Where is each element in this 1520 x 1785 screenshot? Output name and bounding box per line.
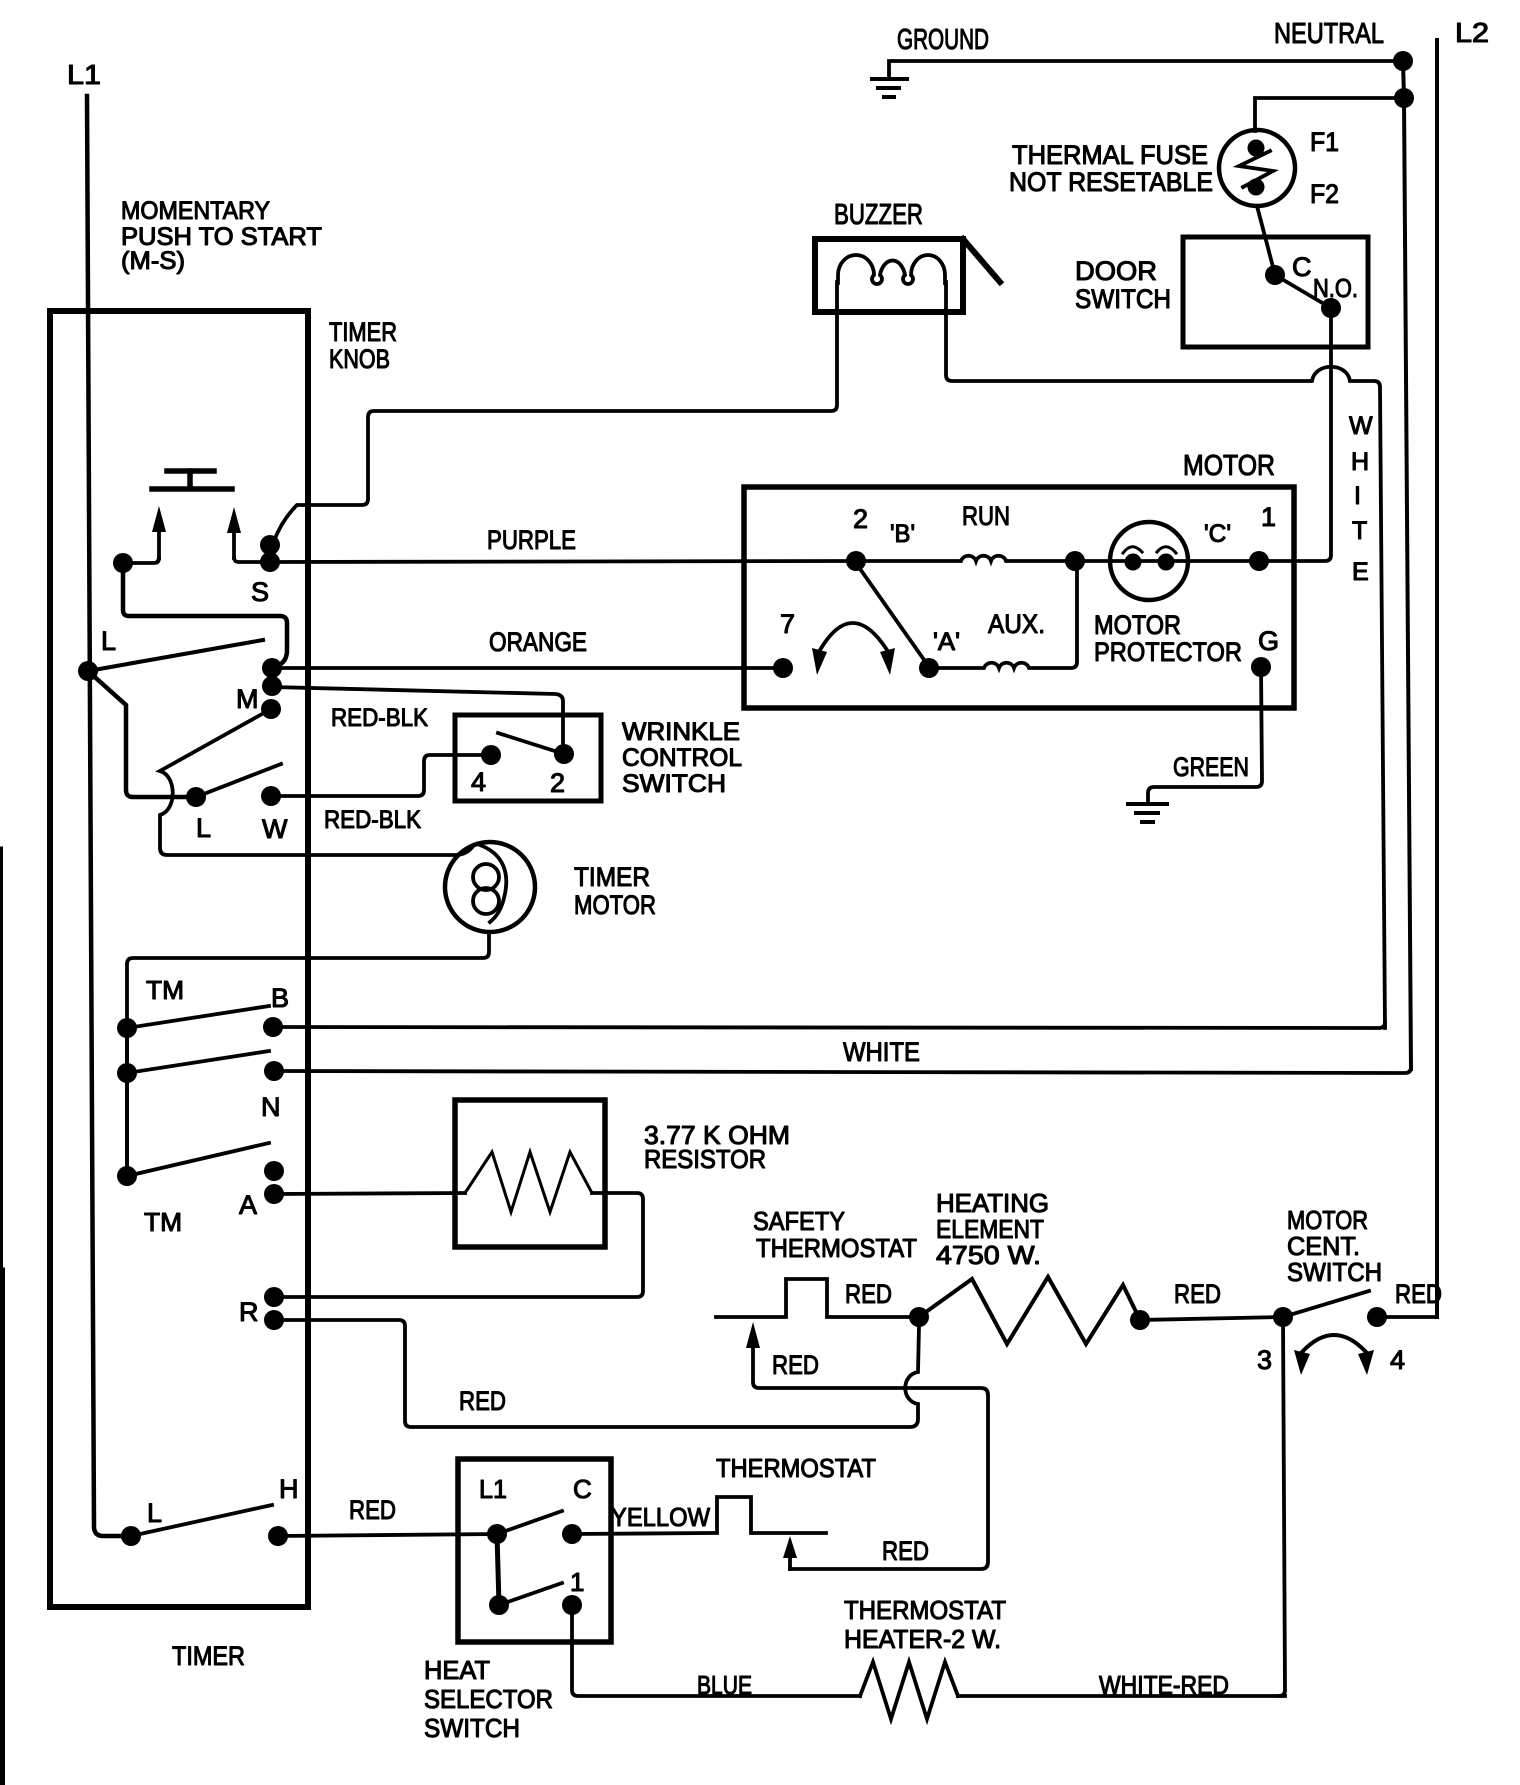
svg-text:RED: RED bbox=[1174, 1279, 1221, 1309]
svg-text:TM: TM bbox=[146, 975, 184, 1005]
wire BLUE from selector 1 to heater bbox=[572, 1605, 860, 1696]
svg-text:MOTOR: MOTOR bbox=[1183, 450, 1275, 482]
thermal fuse element zigzag bbox=[1239, 151, 1273, 187]
wrinkle switch contact 4 dot bbox=[481, 745, 501, 765]
svg-text:SWITCH: SWITCH bbox=[1287, 1257, 1382, 1287]
node heating element right dot bbox=[1130, 1310, 1150, 1330]
svg-text:2: 2 bbox=[853, 504, 868, 534]
svg-text:THERMOSTAT: THERMOSTAT bbox=[756, 1233, 917, 1263]
motor cent switch contact 4 dot bbox=[1367, 1307, 1387, 1327]
wire thermal fuse to door switch common bbox=[1257, 206, 1273, 267]
wire N to neutral riser bbox=[274, 1067, 1411, 1073]
wire resistor loop back to R contact bbox=[274, 1193, 643, 1297]
svg-text:WHITE-RED: WHITE-RED bbox=[1099, 1670, 1229, 1700]
wire RED contact 4 to L2 bbox=[1377, 1315, 1437, 1319]
wire GREEN from G to chassis ground bbox=[1148, 667, 1262, 802]
svg-text:PROTECTOR: PROTECTOR bbox=[1094, 637, 1242, 667]
thermal fuse terminal F2 dot bbox=[1248, 179, 1265, 196]
buzzer striker line bbox=[963, 239, 1000, 282]
cent switch action arc with arrows bbox=[1302, 1335, 1366, 1352]
centrifugal action arc with arrows bbox=[820, 623, 887, 650]
svg-text:HEAT: HEAT bbox=[424, 1655, 490, 1685]
contact S lower dot bbox=[260, 552, 280, 572]
label THERMAL FUSE NOT RESETABLE bbox=[1009, 140, 1213, 197]
svg-text:THERMOSTAT: THERMOSTAT bbox=[844, 1595, 1006, 1625]
svg-text:4: 4 bbox=[471, 767, 486, 797]
contact A lower dot bbox=[264, 1184, 284, 1204]
wire YELLOW with thermostat bump bbox=[572, 1497, 826, 1534]
label HEAT SELECTOR SWITCH bbox=[424, 1655, 553, 1743]
wire L1 vertical line bbox=[87, 96, 131, 1536]
svg-text:H: H bbox=[1351, 448, 1369, 476]
svg-text:SELECTOR: SELECTOR bbox=[424, 1684, 553, 1714]
svg-text:TIMER: TIMER bbox=[172, 1641, 245, 1671]
contact M lower dot bbox=[261, 699, 281, 719]
chassis ground symbol bbox=[1128, 804, 1167, 822]
motor switch arm 2 to A bbox=[858, 566, 927, 664]
ground symbol (earth) bbox=[872, 79, 907, 97]
svg-text:MOMENTARY: MOMENTARY bbox=[121, 197, 270, 225]
svg-text:L: L bbox=[196, 813, 211, 843]
svg-text:3: 3 bbox=[1257, 1345, 1272, 1375]
wire PURPLE from S to motor contact 2 bbox=[270, 561, 856, 562]
door switch contact N.O. dot bbox=[1321, 298, 1341, 318]
svg-text:W: W bbox=[262, 814, 288, 844]
aux winding wire with coil bbox=[929, 570, 1077, 668]
svg-text:GREEN: GREEN bbox=[1173, 752, 1249, 782]
thermostat pointer arrow bbox=[788, 1552, 792, 1569]
label MOTOR PROTECTOR bbox=[1094, 610, 1242, 667]
svg-text:SWITCH: SWITCH bbox=[1075, 284, 1171, 314]
svg-text:MOTOR: MOTOR bbox=[574, 890, 656, 920]
svg-text:M: M bbox=[236, 684, 259, 714]
svg-text:SWITCH: SWITCH bbox=[424, 1713, 520, 1743]
contact TM lower dot bbox=[117, 1166, 137, 1186]
wire RED-BLK from M middle to wrinkle switch 2 bbox=[272, 687, 563, 753]
selector arm to 1 bbox=[499, 1583, 562, 1605]
svg-text:C: C bbox=[573, 1474, 592, 1504]
run winding wire with coil bbox=[856, 556, 1075, 561]
label WRINKLE CONTROL SWITCH bbox=[622, 718, 742, 798]
svg-text:2: 2 bbox=[550, 768, 565, 798]
door switch box bbox=[1183, 237, 1368, 347]
svg-text:WRINKLE: WRINKLE bbox=[622, 718, 740, 746]
svg-text:SWITCH: SWITCH bbox=[622, 770, 726, 798]
timer arm TM to A bbox=[127, 1143, 269, 1176]
svg-text:RED-BLK: RED-BLK bbox=[324, 806, 421, 834]
heat selector switch box bbox=[458, 1459, 611, 1642]
svg-text:SAFETY: SAFETY bbox=[753, 1206, 845, 1236]
resistor 3.77k zigzag bbox=[465, 1152, 592, 1212]
contact A upper dot bbox=[264, 1161, 284, 1181]
svg-text:BLUE: BLUE bbox=[697, 1670, 752, 1700]
timer motor circle bbox=[445, 842, 535, 932]
motor contact 2 dot bbox=[846, 551, 866, 571]
contact N dot bbox=[264, 1061, 284, 1081]
svg-text:L1: L1 bbox=[67, 59, 101, 90]
svg-text:(M-S): (M-S) bbox=[121, 247, 185, 275]
contact M upper dot (orange) bbox=[262, 658, 282, 678]
label MOTOR CENT. SWITCH bbox=[1287, 1205, 1382, 1287]
wire TM vertical link bbox=[125, 1028, 129, 1176]
contact M middle dot (red-blk) bbox=[262, 676, 282, 696]
wire neutral vertical down to N contact wire bbox=[1403, 61, 1411, 1069]
wire door switch N.O. down to motor contact 1 bbox=[1259, 308, 1331, 561]
svg-text:AUX.: AUX. bbox=[988, 609, 1045, 639]
buzzer box bbox=[815, 239, 963, 312]
svg-text:G: G bbox=[1258, 626, 1279, 656]
buzzer coil bbox=[838, 255, 945, 284]
node L pivot dot on L1 line bbox=[78, 661, 98, 681]
label MOMENTARY PUSH TO START (M-S) bbox=[121, 197, 322, 275]
svg-text:TIMER: TIMER bbox=[329, 317, 397, 347]
node neutral junction lower bbox=[1394, 88, 1414, 108]
wire B to white riser bbox=[273, 1022, 1385, 1028]
svg-text:1: 1 bbox=[1261, 502, 1276, 532]
motor protector contact ticks bbox=[1123, 547, 1176, 553]
svg-text:HEATER-2 W.: HEATER-2 W. bbox=[844, 1624, 1001, 1654]
svg-text:RUN: RUN bbox=[962, 501, 1010, 531]
motor protector right dot bbox=[1158, 554, 1175, 571]
svg-text:RESISTOR: RESISTOR bbox=[644, 1144, 766, 1174]
wire M-S common down and over to M contact bbox=[123, 563, 287, 668]
svg-text:'B': 'B' bbox=[890, 520, 915, 548]
svg-text:N.O.: N.O. bbox=[1313, 273, 1358, 303]
vertical wire label WHITE (letters) bbox=[1349, 412, 1373, 586]
svg-text:E: E bbox=[1352, 558, 1369, 586]
wire L2 vertical line bbox=[1435, 40, 1439, 1317]
svg-text:KNOB: KNOB bbox=[329, 344, 390, 374]
wire L pivot down to L contact bbox=[88, 671, 187, 797]
contact W dot bbox=[261, 786, 281, 806]
motor contact G dot bbox=[1251, 657, 1271, 677]
svg-text:CONTROL: CONTROL bbox=[622, 744, 742, 772]
safety thermostat wire with bump bbox=[716, 1279, 919, 1317]
wire left arrow to M-S common dot bbox=[123, 558, 159, 563]
label TIMER MOTOR bbox=[574, 862, 656, 920]
wrinkle switch contact 2 dot bbox=[554, 744, 574, 764]
svg-text:S: S bbox=[251, 577, 269, 607]
timer knob box bbox=[50, 311, 308, 1607]
wire RED from H to heat selector L1 bbox=[278, 1534, 497, 1536]
svg-text:L1: L1 bbox=[479, 1474, 507, 1504]
thermal fuse terminal F1 dot bbox=[1248, 140, 1265, 157]
contact H dot bbox=[268, 1526, 288, 1546]
svg-text:RED: RED bbox=[349, 1495, 396, 1525]
timer switch arm L to M (upper) bbox=[88, 640, 263, 671]
svg-text:L: L bbox=[147, 1498, 162, 1528]
svg-text:'C': 'C' bbox=[1204, 520, 1231, 548]
svg-text:RED-BLK: RED-BLK bbox=[331, 704, 428, 732]
svg-text:F2: F2 bbox=[1310, 179, 1339, 209]
svg-text:W: W bbox=[1349, 412, 1373, 440]
wrinkle switch arm from 2 bbox=[498, 733, 564, 754]
node M-S common dot bbox=[113, 553, 133, 573]
wire M lower arm to timer motor (with hop) bbox=[160, 709, 474, 855]
svg-text:NOT RESETABLE: NOT RESETABLE bbox=[1009, 167, 1213, 197]
contact TM middle dot bbox=[117, 1063, 137, 1083]
svg-text:RED: RED bbox=[845, 1279, 892, 1309]
svg-text:T: T bbox=[1352, 517, 1367, 545]
momentary arrow left bbox=[157, 528, 161, 558]
motor contact A dot bbox=[919, 658, 939, 678]
svg-text:THERMOSTAT: THERMOSTAT bbox=[716, 1453, 876, 1483]
svg-text:PURPLE: PURPLE bbox=[487, 525, 576, 555]
wire RED from R contact to safety thermostat riser bbox=[274, 1320, 919, 1427]
wire right arrow to S contact bbox=[234, 558, 270, 562]
timer arm L to H bbox=[131, 1505, 272, 1536]
label SAFETY THERMOSTAT bbox=[753, 1206, 917, 1263]
push button cap bbox=[152, 471, 232, 489]
svg-text:MOTOR: MOTOR bbox=[1094, 610, 1181, 640]
svg-text:L2: L2 bbox=[1455, 17, 1489, 48]
timer motor coil bbox=[473, 844, 506, 922]
svg-text:NEUTRAL: NEUTRAL bbox=[1274, 18, 1384, 50]
svg-text:WHITE: WHITE bbox=[843, 1037, 920, 1067]
red wire pointer arrow (safety thermostat) bbox=[746, 1322, 760, 1348]
svg-text:RED: RED bbox=[772, 1350, 819, 1380]
svg-text:R: R bbox=[239, 1297, 259, 1327]
motor protector circle bbox=[1110, 522, 1188, 600]
motor contact 7 dot bbox=[773, 658, 793, 678]
label HEATING ELEMENT 4750 W. bbox=[936, 1188, 1049, 1270]
svg-text:THERMAL FUSE: THERMAL FUSE bbox=[1012, 140, 1208, 170]
svg-text:DOOR: DOOR bbox=[1075, 256, 1157, 286]
wire neutral to thermal fuse bbox=[1255, 98, 1404, 131]
svg-text:1: 1 bbox=[570, 1567, 584, 1597]
heating element zigzag bbox=[919, 1277, 1140, 1344]
timer arm TM to N bbox=[127, 1051, 269, 1073]
wire timer motor bottom to TM contact bbox=[127, 932, 489, 1028]
selector lower pivot dot bbox=[489, 1595, 509, 1615]
resistor box bbox=[455, 1100, 605, 1247]
contact L (heat) dot bbox=[121, 1526, 141, 1546]
svg-text:I: I bbox=[1354, 482, 1361, 510]
svg-text:RED: RED bbox=[459, 1386, 506, 1416]
svg-text:4750 W.: 4750 W. bbox=[936, 1240, 1041, 1270]
svg-text:'A': 'A' bbox=[933, 628, 960, 656]
selector link vertical bbox=[497, 1534, 499, 1605]
motor protector left dot bbox=[1125, 554, 1142, 571]
label 3.77 K OHM RESISTOR bbox=[644, 1120, 790, 1174]
wire A contact to resistor bbox=[274, 1193, 465, 1194]
node neutral junction upper bbox=[1393, 51, 1413, 71]
svg-text:TIMER: TIMER bbox=[574, 862, 650, 892]
svg-text:ORANGE: ORANGE bbox=[489, 627, 587, 657]
wire ORANGE from M to motor contact 7 bbox=[272, 666, 783, 670]
svg-text:TM: TM bbox=[144, 1207, 182, 1237]
svg-text:L: L bbox=[101, 626, 116, 656]
svg-text:4: 4 bbox=[1390, 1345, 1405, 1375]
contact L (lower) dot bbox=[186, 787, 206, 807]
selector contact L1 dot bbox=[487, 1524, 507, 1544]
label TIMER KNOB bbox=[329, 317, 397, 374]
svg-text:RED: RED bbox=[1395, 1279, 1442, 1309]
contact TM upper dot bbox=[117, 1018, 137, 1038]
svg-text:YELLOW: YELLOW bbox=[611, 1502, 710, 1532]
contact S upper dot bbox=[260, 535, 280, 555]
node run/aux junction dot bbox=[1065, 551, 1085, 571]
wire WHITE-RED heater to cent switch 3 bbox=[958, 1694, 1285, 1698]
wire wrinkle 4 to W contact bbox=[271, 755, 491, 796]
svg-text:BUZZER: BUZZER bbox=[834, 199, 923, 231]
svg-text:C: C bbox=[1292, 252, 1312, 282]
thermostat heater zigzag bbox=[860, 1662, 958, 1719]
label THERMOSTAT HEATER-2 W. bbox=[844, 1595, 1006, 1654]
contact R lower dot bbox=[264, 1310, 284, 1330]
scan edge artifact line bbox=[0, 848, 3, 1270]
motor contact 1 dot bbox=[1249, 551, 1269, 571]
selector arm L1 to C bbox=[497, 1511, 562, 1534]
selector contact C dot bbox=[562, 1524, 582, 1544]
wire ground to neutral node bbox=[889, 61, 1403, 77]
wire RED from thermostat up to safety thermostat line bbox=[753, 1348, 988, 1569]
contact R upper dot bbox=[264, 1287, 284, 1307]
wire contact 3 down to white-red bbox=[1279, 1317, 1285, 1696]
wire element to motor cent switch 3 bbox=[1140, 1317, 1283, 1320]
svg-text:A: A bbox=[239, 1190, 257, 1220]
door switch arm C to N.O. bbox=[1275, 275, 1331, 308]
node heating element junction dot bbox=[909, 1307, 929, 1327]
timer arm TM to B bbox=[127, 1006, 269, 1028]
svg-text:GROUND: GROUND bbox=[897, 24, 989, 56]
svg-text:N: N bbox=[261, 1092, 281, 1122]
wire buzzer right lead down then right to white drop bbox=[946, 282, 1385, 1028]
svg-text:H: H bbox=[279, 1474, 299, 1504]
wrinkle control switch box bbox=[455, 715, 601, 801]
label DOOR SWITCH bbox=[1075, 256, 1171, 314]
wire through protector to contact 1 bbox=[1075, 559, 1259, 563]
door switch contact C dot bbox=[1265, 265, 1285, 285]
selector contact 1 dot bbox=[562, 1595, 582, 1615]
svg-text:7: 7 bbox=[780, 609, 795, 639]
momentary arrow right bbox=[232, 528, 236, 558]
svg-text:RED: RED bbox=[882, 1536, 929, 1566]
timer switch arm from L lower bbox=[196, 764, 281, 797]
wire buzzer left lead down and left to timer S feed bbox=[274, 282, 837, 541]
thermal fuse body (circle) bbox=[1219, 130, 1295, 206]
contact B dot bbox=[263, 1017, 283, 1037]
svg-text:F1: F1 bbox=[1310, 127, 1339, 157]
motor cent switch arm bbox=[1283, 1291, 1369, 1317]
motor box bbox=[744, 487, 1294, 708]
motor cent switch contact 3 dot bbox=[1273, 1307, 1293, 1327]
svg-text:B: B bbox=[271, 983, 289, 1013]
